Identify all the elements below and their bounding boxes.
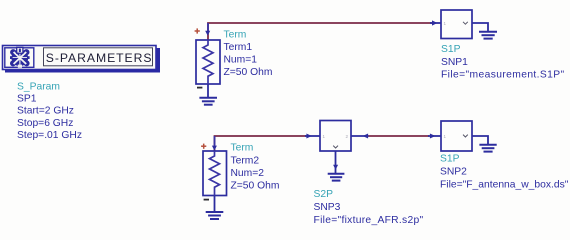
node arrow SNP2 pin1 — [430, 134, 436, 139]
svg-text:S1P: S1P — [441, 44, 461, 55]
svg-text:SNP2: SNP2 — [440, 166, 467, 177]
svg-text:File="fixture_AFR.s2p": File="fixture_AFR.s2p" — [314, 215, 424, 226]
wire net1 Term1 to SNP1 — [208, 23, 432, 40]
pin stub SNP1 ref — [472, 23, 488, 31]
Term2 Z label — [231, 181, 280, 192]
S-PARAMETERS controller shadow — [5, 48, 160, 73]
svg-text:Term: Term — [231, 143, 254, 154]
ground SNP2 — [479, 145, 496, 152]
svg-text:SNP1: SNP1 — [441, 57, 468, 68]
S-PARAMETERS title frame — [44, 48, 153, 66]
s1p SNP1 body — [441, 10, 472, 39]
terminal Term1 plus — [195, 28, 200, 33]
S_Param label — [17, 81, 60, 92]
SNP1 file label — [441, 69, 565, 80]
node arrow SNP1 pin1 — [432, 20, 437, 25]
svg-text:S1P: S1P — [440, 154, 460, 165]
svg-text:File="F_antenna_w_box.ds": File="F_antenna_w_box.ds" — [440, 179, 569, 190]
wire net3 SNP3 to SNP2 — [369, 135, 430, 137]
ground Term1 — [199, 84, 217, 105]
SNP1 name label — [441, 57, 468, 68]
terminal Term2 minus — [204, 199, 209, 201]
node arrow SNP3 ref — [333, 165, 338, 170]
Step label — [17, 130, 82, 141]
pin stub SNP3 ref — [335, 151, 337, 174]
Term2 name label — [231, 155, 260, 166]
S-PARAMETERS icon cell — [5, 48, 34, 68]
node arrow SNP3 pin1 — [306, 134, 311, 139]
pin stub SNP1 pin1 — [430, 22, 441, 24]
s2p SNP3 body — [320, 121, 351, 152]
SNP2 name label — [440, 166, 467, 177]
svg-text:SNP3: SNP3 — [314, 202, 341, 213]
Term label (Term2) — [231, 143, 254, 154]
Term label (Term1) — [224, 30, 247, 41]
pin stub SNP2 pin1 — [428, 135, 441, 137]
svg-text:S_Param: S_Param — [17, 81, 60, 92]
S2P label (SNP3) — [314, 189, 334, 200]
Term1 Num label — [224, 55, 258, 66]
SNP2 file label — [440, 179, 569, 190]
pin stub SNP3 pin1 — [305, 135, 320, 137]
ground SNP3 — [328, 174, 345, 181]
Term1 name label — [224, 42, 253, 53]
svg-text:Start=2 GHz: Start=2 GHz — [17, 106, 74, 117]
S1P label (SNP1) — [441, 44, 461, 55]
node arrow Term1 pin1 — [205, 31, 210, 36]
terminal Term2 body — [203, 151, 227, 196]
terminal Term1 body — [196, 40, 220, 84]
S-PARAMETERS controller box — [3, 46, 157, 70]
svg-text:Step=.01 GHz: Step=.01 GHz — [17, 130, 82, 141]
pin stub SNP3 pin2 — [351, 135, 369, 137]
S1P label (SNP2) — [440, 154, 460, 165]
svg-text:S-PARAMETERS: S-PARAMETERS — [46, 51, 153, 65]
ground Term2 — [206, 196, 224, 220]
svg-text:SP1: SP1 — [17, 94, 37, 105]
Term1 Z label — [224, 67, 273, 78]
svg-text:Z=50 Ohm: Z=50 Ohm — [224, 67, 273, 78]
s1p SNP2 body — [441, 121, 472, 151]
terminal Term1 minus — [197, 87, 202, 89]
SP1 label — [17, 94, 37, 105]
pin stub SNP2 ref — [472, 136, 488, 145]
svg-text:Term2: Term2 — [231, 155, 260, 166]
ground SNP1 — [479, 32, 497, 39]
svg-text:Z=50 Ohm: Z=50 Ohm — [231, 181, 280, 192]
svg-text:Num=2: Num=2 — [231, 168, 265, 179]
Term2 Num label — [231, 168, 265, 179]
svg-text:Term: Term — [224, 30, 247, 41]
S-PARAMETERS gear icon — [10, 47, 30, 67]
wire net2 Term2 to SNP3 — [215, 136, 307, 151]
node arrow SNP3 pin2 — [363, 134, 368, 139]
SNP3 name label — [314, 202, 341, 213]
svg-text:Term1: Term1 — [224, 42, 253, 53]
S-PARAMETERS title text — [46, 51, 153, 65]
svg-text:File="measurement.S1P": File="measurement.S1P" — [441, 69, 565, 80]
svg-text:S2P: S2P — [314, 189, 334, 200]
Stop label — [17, 118, 73, 129]
SNP3 file label — [314, 215, 424, 226]
node arrow Term2 pin1 — [212, 146, 217, 151]
terminal Term2 plus — [201, 144, 206, 149]
svg-text:Num=1: Num=1 — [224, 55, 258, 66]
Start label — [17, 106, 74, 117]
svg-text:Stop=6 GHz: Stop=6 GHz — [17, 118, 73, 129]
